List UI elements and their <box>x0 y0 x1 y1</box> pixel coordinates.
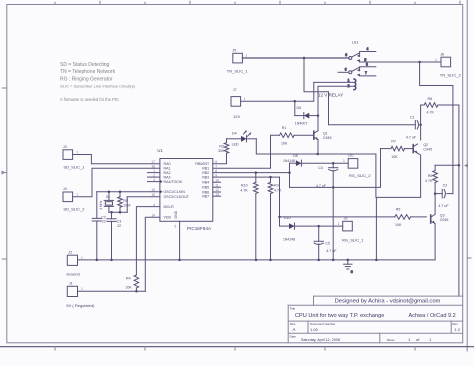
svg-text:OSC2/CLKOUT: OSC2/CLKOUT <box>164 195 190 199</box>
wire 12V to relay coil <box>241 82 314 102</box>
resistor R5 10K <box>395 207 427 227</box>
wire R8 left / C1 / Q2 collector node <box>420 105 422 140</box>
svg-text:RA0: RA0 <box>164 162 171 166</box>
svg-text:C945: C945 <box>440 218 449 222</box>
svg-text:J5: J5 <box>232 49 236 53</box>
svg-text:D6: D6 <box>297 106 302 110</box>
wire D10 node to R5 <box>280 216 395 218</box>
svg-text:1: 1 <box>408 337 411 342</box>
wire 5V rail <box>78 290 146 292</box>
svg-text:R1: R1 <box>282 126 287 130</box>
svg-text:R2: R2 <box>219 145 224 149</box>
wire R6 top to R8 drop <box>435 164 459 166</box>
svg-text:SD_SLIC_2: SD_SLIC_2 <box>63 207 85 212</box>
svg-text:D4: D4 <box>232 132 237 136</box>
svg-text:RG_SLIC_1: RG_SLIC_1 <box>342 238 364 243</box>
capacitor C4 4.7uF <box>316 163 338 260</box>
transistor Q3 C945 <box>431 213 449 224</box>
capacitor C2 22pF <box>92 192 106 261</box>
svg-text:1: 1 <box>76 150 78 154</box>
diode D5 1N4148 <box>283 154 348 166</box>
svg-text:1.2: 1.2 <box>454 327 460 332</box>
wire RB2 to D5 node <box>213 171 291 174</box>
svg-text:1: 1 <box>81 256 83 260</box>
svg-text:4.7K: 4.7K <box>240 188 248 192</box>
svg-text:J9: J9 <box>344 216 348 220</box>
svg-text:C1: C1 <box>410 116 415 120</box>
wire RB3 riser to D10 and R5 <box>278 177 281 226</box>
connector J9 RG_SLIC_1 <box>338 216 365 242</box>
resistor R10 4.7K <box>240 173 258 260</box>
svg-text:4 MHz: 4 MHz <box>99 200 103 210</box>
svg-text:Rev: Rev <box>452 322 458 326</box>
svg-text:1: 1 <box>245 54 247 58</box>
svg-text:10K: 10K <box>125 285 132 289</box>
svg-text:C2: C2 <box>443 183 448 187</box>
svg-text:of: of <box>416 337 420 342</box>
svg-text:R8: R8 <box>428 97 433 101</box>
svg-text:C5: C5 <box>325 241 330 245</box>
wire emitter node to ground rail <box>375 197 377 260</box>
svg-text:12 V RELAY: 12 V RELAY <box>318 93 343 98</box>
svg-text:0: 0 <box>351 270 353 274</box>
connector J1 5V regulated <box>66 282 95 308</box>
ground symbol 0 <box>344 259 353 275</box>
svg-text:Q1: Q1 <box>323 131 328 135</box>
svg-text:RF: RF <box>123 199 129 203</box>
wire Q3 collector to R6 <box>434 192 437 214</box>
svg-text:Q3: Q3 <box>440 213 445 217</box>
svg-text:J10: J10 <box>348 154 354 158</box>
svg-text:4.7K: 4.7K <box>425 179 433 183</box>
connector J7 12V <box>231 88 246 119</box>
svg-text:12V: 12V <box>233 114 240 119</box>
svg-text:10K: 10K <box>391 155 398 159</box>
svg-text:D10: D10 <box>284 216 291 220</box>
wire RB3 to D10 riser <box>213 176 280 179</box>
wire MCLR <box>136 207 160 275</box>
svg-text:4: 4 <box>367 47 369 51</box>
svg-text:Q2: Q2 <box>423 143 428 147</box>
svg-text:R4: R4 <box>126 276 131 280</box>
svg-text:4.7K: 4.7K <box>427 111 435 115</box>
svg-text:C4: C4 <box>318 166 323 170</box>
resistor R1 10K <box>280 126 314 145</box>
svg-text:GND: GND <box>174 210 178 218</box>
svg-text:R5: R5 <box>396 207 401 211</box>
wire relay contact5 to J6 <box>360 61 441 64</box>
svg-text:22: 22 <box>102 220 106 224</box>
connector J3 SD_SLIC_1 <box>63 145 85 169</box>
svg-text:RB0/INT: RB0/INT <box>195 162 210 166</box>
wire emitter rail down <box>375 154 377 197</box>
svg-text:X1: X1 <box>106 195 110 199</box>
resistor RF 10M across crystal <box>118 192 131 213</box>
svg-text:1: 1 <box>244 97 246 101</box>
svg-text:1N4007: 1N4007 <box>295 121 308 125</box>
svg-text:RG : Ringing Generator: RG : Ringing Generator <box>60 76 113 82</box>
svg-text:1: 1 <box>343 159 345 163</box>
transistor Q2 C945 <box>413 143 432 154</box>
svg-text:A firmware is needed for the P: A firmware is needed for the PIC <box>60 97 119 102</box>
capacitor C1 4.7uF <box>406 116 422 140</box>
svg-text:CPU Unit for two way T.P. exc: CPU Unit for two way T.P. exchange <box>295 313 384 319</box>
svg-text:SLIC = Subscriber Line Interfa: SLIC = Subscriber Line Interface Circuit… <box>60 84 136 89</box>
connector J5 TN_SLIC_1 <box>227 49 249 74</box>
svg-text:RB2: RB2 <box>202 171 209 175</box>
svg-text:Designed by Achira - vdsinot@: Designed by Achira - vdsinot@gmail.com <box>335 299 441 305</box>
wire RG_SLIC_2 loop bottom to R7 <box>290 149 381 188</box>
wire relay coil pin2 to D6/Q1 <box>318 86 354 115</box>
svg-text:1.00: 1.00 <box>310 327 319 332</box>
diode D6 1N4007 <box>295 106 319 125</box>
svg-text:SD = Status Detecting: SD = Status Detecting <box>60 62 110 68</box>
svg-text:OSC1/CLKIN: OSC1/CLKIN <box>164 190 186 194</box>
svg-text:LS1: LS1 <box>352 40 359 44</box>
wire U1 pin5 to ground rail <box>178 221 181 261</box>
wire OSC1 node <box>97 190 160 193</box>
diode D10 1N4148 <box>280 216 343 242</box>
title block <box>288 296 463 343</box>
resistor R9 4.7K <box>268 177 282 260</box>
svg-text:R7: R7 <box>391 139 396 143</box>
resistor R8 4.7K <box>421 97 459 114</box>
wire 12V junction to D6 <box>294 101 296 115</box>
svg-text:4.7 uF: 4.7 uF <box>438 204 449 208</box>
wire RB1 to R1 <box>213 135 280 168</box>
svg-text:SD_SLIC_1: SD_SLIC_1 <box>63 164 85 169</box>
svg-text:A: A <box>293 327 296 332</box>
svg-text:1: 1 <box>435 58 437 62</box>
svg-text:RB3: RB3 <box>202 176 209 180</box>
relay LS1 12V RELAY <box>318 40 376 97</box>
svg-text:4.7K: 4.7K <box>274 188 282 192</box>
svg-text:RG_SLIC_2: RG_SLIC_2 <box>349 173 371 178</box>
svg-text:J4: J4 <box>63 187 67 191</box>
svg-text:U1: U1 <box>157 148 163 153</box>
svg-text:RA3: RA3 <box>164 176 171 180</box>
svg-text:PIC16F84A: PIC16F84A <box>187 226 212 231</box>
wire Q1 emitter <box>317 140 319 154</box>
connector J10 RG_SLIC_2 <box>343 154 371 178</box>
capacitor C3 22pF <box>107 212 121 261</box>
wire R8 right drop <box>458 105 461 296</box>
svg-text:5: 5 <box>364 58 366 62</box>
wire J4 to U1 RA1 <box>73 168 160 197</box>
svg-text:R10: R10 <box>241 183 248 187</box>
wire Q2 emitter <box>376 153 420 197</box>
op-amp U1 microcontroller PIC16F84A <box>148 148 221 231</box>
svg-text:RB7: RB7 <box>202 195 209 199</box>
wire J5 to relay common <box>242 57 349 60</box>
svg-text:Saturday, April 12, 2008: Saturday, April 12, 2008 <box>301 338 340 342</box>
svg-text:VDD: VDD <box>164 216 172 220</box>
wire Q1 collector <box>317 116 319 131</box>
svg-text:R6: R6 <box>428 174 433 178</box>
wire relay coil pin1 <box>314 81 354 83</box>
svg-text:1N4148: 1N4148 <box>283 159 295 163</box>
wire D5 anode riser <box>289 163 291 187</box>
svg-text:J7: J7 <box>233 88 237 92</box>
wire RB0 to R2 <box>213 153 227 163</box>
connector J6 TN_SLIC_2 <box>435 52 461 77</box>
svg-text:Document Number: Document Number <box>310 322 335 326</box>
svg-text:Sheet: Sheet <box>387 338 395 342</box>
svg-text:RB4: RB4 <box>202 181 209 185</box>
wire Q3 emitter to rail <box>434 224 436 260</box>
wire VDD to 5V rail <box>145 217 160 291</box>
svg-text:7: 7 <box>365 71 367 75</box>
connector J2 Ground <box>66 250 83 276</box>
svg-text:10K: 10K <box>395 223 402 227</box>
svg-text:LED: LED <box>232 143 239 147</box>
resistor R2 300 <box>218 139 229 154</box>
svg-text:RA4/TOCKI: RA4/TOCKI <box>164 180 183 184</box>
wire J3 to U1 RA0 <box>73 155 160 164</box>
svg-text:1: 1 <box>81 287 83 291</box>
svg-text:J2: J2 <box>68 250 72 254</box>
svg-text:5: 5 <box>175 225 177 229</box>
svg-text:10K: 10K <box>281 142 288 146</box>
svg-text:1N4148: 1N4148 <box>283 238 295 242</box>
svg-text:4.7 uF: 4.7 uF <box>326 249 337 253</box>
svg-text:J1: J1 <box>69 282 73 286</box>
transistor Q1 C945 <box>314 131 332 141</box>
note text block <box>60 62 136 102</box>
connector J4 SD_SLIC_2 <box>63 187 85 212</box>
wire OSC2 node <box>109 197 160 214</box>
svg-text:5V ( Regulated): 5V ( Regulated) <box>66 303 95 308</box>
svg-text:1: 1 <box>348 78 350 82</box>
svg-text:J3: J3 <box>63 145 67 149</box>
svg-text:Size: Size <box>290 322 296 326</box>
svg-text:RA2: RA2 <box>164 171 171 175</box>
wire J6 tap to C2 <box>420 62 453 194</box>
wire D4 to emitter rail <box>256 139 376 155</box>
svg-text:D5: D5 <box>293 154 298 158</box>
LED D4 <box>227 130 257 146</box>
resistor R7 10K <box>381 139 414 159</box>
crystal X1 4MHz <box>99 192 114 213</box>
svg-text:4.7 uF: 4.7 uF <box>406 136 417 140</box>
svg-text:1: 1 <box>338 222 340 226</box>
capacitor C5 4.7uF <box>314 226 337 260</box>
svg-text:3: 3 <box>345 53 347 57</box>
svg-text:TN_SLIC_1: TN_SLIC_1 <box>227 69 249 74</box>
svg-text:MCLR: MCLR <box>164 205 175 209</box>
svg-text:1: 1 <box>76 193 78 197</box>
svg-text:RB5: RB5 <box>202 186 209 190</box>
svg-text:C945: C945 <box>323 136 332 140</box>
svg-text:Title: Title <box>290 306 296 310</box>
wire ground rail <box>78 259 436 262</box>
svg-text:1: 1 <box>429 337 432 342</box>
svg-text:300: 300 <box>218 149 224 153</box>
capacitor C2 4.7uF (right) <box>435 183 453 207</box>
svg-text:R9: R9 <box>274 183 279 187</box>
resistor R6 4.7K <box>425 165 437 193</box>
resistor R4 10K <box>125 275 138 293</box>
svg-text:22: 22 <box>117 224 121 228</box>
svg-text:6: 6 <box>345 68 347 72</box>
svg-text:TN = Telephone Network: TN = Telephone Network <box>60 69 116 75</box>
svg-text:C945: C945 <box>423 148 432 152</box>
svg-text:Ground: Ground <box>66 271 79 276</box>
svg-text:8: 8 <box>366 62 368 66</box>
svg-text:TN_SLIC_2: TN_SLIC_2 <box>440 72 462 77</box>
wire J5 node to C1 <box>304 58 415 125</box>
svg-text:Date: Date <box>290 334 297 338</box>
svg-text:J6: J6 <box>440 52 444 56</box>
svg-text:Achwa / OrCad 9.2: Achwa / OrCad 9.2 <box>409 313 456 319</box>
